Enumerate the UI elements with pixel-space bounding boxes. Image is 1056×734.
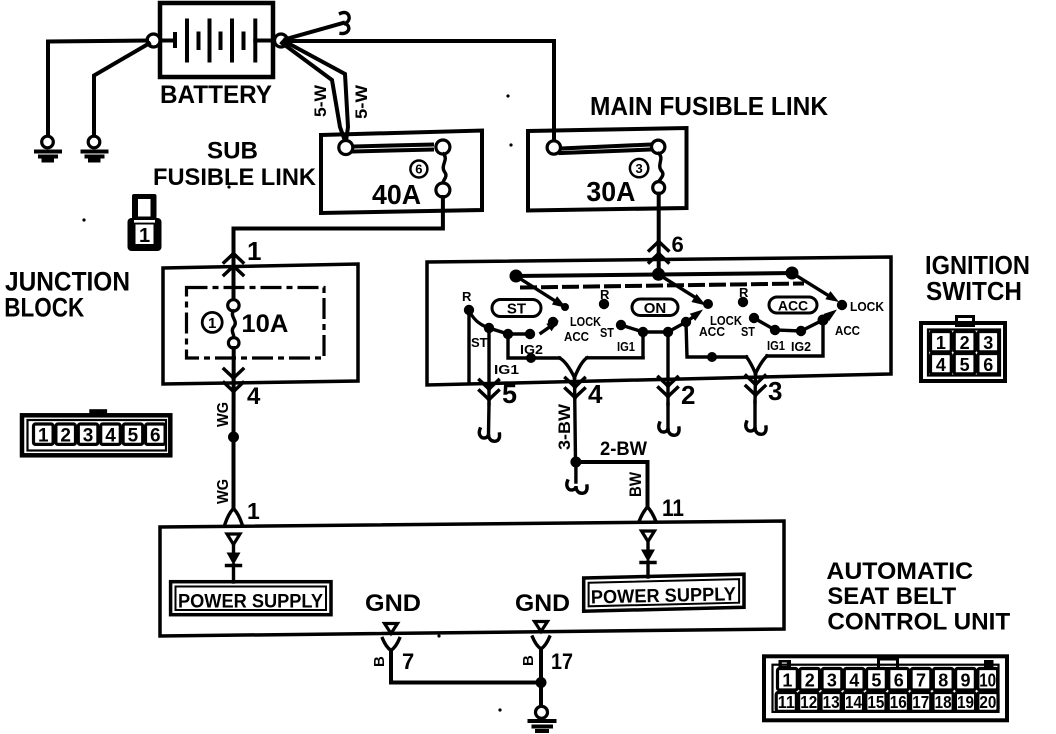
svg-text:1: 1 bbox=[208, 315, 216, 332]
node: bus dot section ON bbox=[652, 268, 665, 281]
main link fuse squiggle bbox=[659, 154, 663, 182]
wiper arm section ON bbox=[659, 274, 707, 305]
power supply box left bbox=[171, 582, 331, 615]
GND right exit triangle bbox=[535, 622, 548, 632]
ground G3 bbox=[530, 706, 555, 731]
sub fusible link box bbox=[321, 131, 482, 214]
wire section ST contact R to box edge bbox=[467, 310, 470, 382]
pin 1 entry triangle bbox=[227, 534, 240, 545]
automatic seat belt control unit box bbox=[160, 521, 784, 636]
wire pin 11 to diode bbox=[646, 541, 649, 551]
svg-text:SEAT BELT: SEAT BELT bbox=[827, 583, 956, 610]
wire 5-W (b) battery to sub fusible link bbox=[284, 41, 348, 141]
svg-text:1: 1 bbox=[247, 498, 260, 524]
wire fuse to pin 4 bbox=[232, 348, 236, 437]
svg-text:2: 2 bbox=[960, 333, 970, 353]
svg-text:10A: 10A bbox=[241, 310, 288, 338]
svg-text:5-W: 5-W bbox=[352, 84, 371, 119]
pin 5 chevrons bbox=[485, 386, 494, 394]
svg-text:BW: BW bbox=[626, 471, 645, 497]
svg-text:2: 2 bbox=[681, 380, 695, 410]
pin 3 funnel bbox=[747, 356, 768, 374]
svg-text:SWITCH: SWITCH bbox=[926, 276, 1022, 306]
svg-text:SUB: SUB bbox=[207, 138, 258, 165]
section ST gap stub with arrowhead bbox=[541, 321, 559, 334]
svg-text:7: 7 bbox=[402, 649, 414, 674]
node: main link right terminal bbox=[652, 140, 665, 153]
power supply box right bbox=[584, 574, 744, 611]
scan specks bbox=[506, 94, 509, 97]
wire section ACC elbow to pin 3 funnel bbox=[767, 320, 823, 356]
section ACC gap stub with arrowhead bbox=[823, 310, 837, 322]
wire section ST elbow to pin 4 funnel bbox=[508, 334, 560, 358]
pin 11 crow-foot (control unit) bbox=[639, 507, 656, 522]
section ACC contacts arc bbox=[754, 318, 823, 331]
svg-text:POWER SUPPLY: POWER SUPPLY bbox=[591, 584, 737, 608]
hook pin 3 wire end bbox=[746, 422, 766, 434]
svg-text:IG1: IG1 bbox=[494, 362, 519, 377]
wire pin 5 to hook bbox=[487, 404, 491, 434]
node: sub link left terminal bbox=[339, 141, 353, 155]
svg-text:1: 1 bbox=[38, 426, 49, 447]
wire pin 1 to diode bbox=[232, 544, 235, 554]
wire battery positive stub to other circuit bbox=[286, 23, 343, 39]
svg-text:IG1: IG1 bbox=[767, 338, 785, 353]
section ST contacts arc bbox=[469, 310, 530, 334]
pin 4 chevrons bbox=[571, 384, 580, 392]
wire diode to power supply box right bbox=[646, 562, 649, 577]
junction dot on WG wire bbox=[228, 432, 239, 443]
svg-text:12: 12 bbox=[800, 692, 817, 712]
hook: wire end to other circuit bbox=[336, 11, 353, 34]
svg-text:3: 3 bbox=[983, 333, 993, 353]
wire battery negative to ground 2 bbox=[94, 44, 149, 137]
svg-text:GND: GND bbox=[515, 590, 570, 617]
svg-text:3: 3 bbox=[83, 426, 94, 447]
svg-text:CONTROL UNIT: CONTROL UNIT bbox=[827, 608, 1010, 635]
svg-text:11: 11 bbox=[662, 495, 684, 522]
wire section ON elbow right toward pin 3 funnel bbox=[686, 322, 747, 357]
wiper arm section ST bbox=[516, 276, 567, 308]
svg-text:B: B bbox=[371, 656, 388, 667]
node: main link lower terminal bbox=[653, 182, 665, 194]
wire pin 3 from funnel bbox=[753, 374, 757, 403]
svg-text:6: 6 bbox=[983, 355, 993, 375]
node: junction dot pin4 wire bbox=[570, 457, 581, 468]
battery B1 box bbox=[160, 3, 273, 77]
svg-text:10: 10 bbox=[979, 671, 996, 691]
wire pin 4 from funnel bbox=[575, 378, 576, 463]
circled 3 bbox=[630, 159, 648, 177]
node dot on wire to pin 3 bbox=[707, 352, 717, 362]
sub fusible link element (double line) bbox=[354, 145, 432, 152]
dashed wiper travel line bbox=[522, 284, 802, 288]
wire pin 7 to ground junction bbox=[391, 651, 541, 683]
wire to control unit pin 1 bbox=[232, 437, 236, 509]
svg-text:18: 18 bbox=[935, 692, 952, 712]
sub link fuse squiggle bbox=[443, 154, 446, 183]
svg-text:40A: 40A bbox=[372, 179, 421, 210]
svg-text:5: 5 bbox=[871, 671, 881, 691]
svg-text:6: 6 bbox=[150, 426, 161, 447]
pin 4 chevron arrows (junction block) bbox=[229, 375, 238, 383]
wire main link to ignition switch pin 6 bbox=[657, 194, 661, 274]
ignition switch box bbox=[427, 257, 891, 385]
wire battery negative to ground 1 bbox=[48, 41, 147, 137]
svg-text:LOCK: LOCK bbox=[850, 299, 885, 314]
circled 6 bbox=[410, 161, 427, 178]
node: main link left terminal bbox=[547, 141, 560, 154]
main fusible link element (double line) bbox=[561, 145, 652, 154]
svg-text:R: R bbox=[600, 287, 610, 302]
node: bus dot section ACC bbox=[786, 267, 799, 280]
ground G1 bbox=[36, 136, 60, 160]
section ON contacts arc bbox=[621, 322, 686, 332]
ground G2 bbox=[83, 136, 107, 160]
svg-text:4: 4 bbox=[936, 355, 946, 375]
svg-text:16: 16 bbox=[890, 692, 907, 712]
wire section ST contact to pin 5 bbox=[487, 328, 490, 404]
fuse F1 10A bbox=[228, 300, 239, 349]
svg-text:4: 4 bbox=[588, 379, 603, 409]
wiper arm section ACC bbox=[792, 273, 839, 302]
svg-text:1: 1 bbox=[936, 333, 946, 353]
pin 3 chevrons bbox=[751, 381, 760, 389]
node: sub link right terminal bbox=[436, 140, 450, 154]
node: battery positive terminal bbox=[275, 34, 288, 47]
svg-text:3: 3 bbox=[635, 161, 642, 176]
svg-text:WG: WG bbox=[215, 402, 232, 427]
svg-text:2-BW: 2-BW bbox=[600, 439, 647, 460]
svg-text:ACC: ACC bbox=[699, 324, 726, 339]
svg-text:4: 4 bbox=[849, 671, 859, 691]
svg-text:GND: GND bbox=[365, 590, 421, 617]
wire battery positive to main fusible link bbox=[287, 41, 554, 141]
svg-text:ACC: ACC bbox=[564, 329, 590, 344]
svg-text:IG1: IG1 bbox=[617, 339, 635, 354]
node: bus dot section ST bbox=[510, 270, 523, 283]
svg-text:6: 6 bbox=[415, 162, 422, 177]
svg-text:5-W: 5-W bbox=[311, 84, 330, 117]
wire section ON contact to pin 2 bbox=[666, 332, 669, 404]
svg-text:ST: ST bbox=[600, 325, 614, 340]
section ACC contact dots bbox=[738, 297, 847, 336]
svg-text:LOCK: LOCK bbox=[570, 314, 602, 329]
section ON labels bbox=[600, 287, 743, 354]
label AUTOMATIC SEAT BELT CONTROL UNIT bbox=[826, 558, 1010, 636]
oval position label ST bbox=[492, 300, 541, 318]
svg-text:3: 3 bbox=[768, 376, 782, 406]
svg-text:1: 1 bbox=[247, 236, 261, 266]
oval position label ON bbox=[632, 299, 678, 317]
svg-text:POWER SUPPLY: POWER SUPPLY bbox=[178, 592, 323, 613]
svg-text:2: 2 bbox=[805, 671, 815, 691]
connector icon: junction block 6-pin bbox=[22, 409, 170, 455]
svg-text:14: 14 bbox=[845, 692, 862, 712]
svg-text:BATTERY: BATTERY bbox=[160, 81, 272, 109]
hook pin 5 wire end bbox=[479, 429, 499, 441]
svg-text:19: 19 bbox=[957, 692, 974, 712]
section ACC labels bbox=[739, 285, 885, 354]
oval position label ACC bbox=[769, 297, 817, 314]
svg-text:3: 3 bbox=[827, 671, 837, 691]
svg-text:5: 5 bbox=[128, 426, 139, 447]
svg-text:ST: ST bbox=[507, 301, 526, 318]
pin 6 chevron arrows bbox=[654, 238, 663, 246]
node: battery negative terminal bbox=[147, 34, 160, 47]
svg-text:5: 5 bbox=[502, 379, 517, 409]
wire pin 17 to ground bbox=[539, 649, 543, 706]
hook pin 2 wire end bbox=[659, 423, 679, 435]
section ON contact dots bbox=[599, 299, 713, 337]
pin 4 funnel bbox=[560, 358, 644, 378]
svg-text:1: 1 bbox=[782, 671, 792, 691]
svg-text:15: 15 bbox=[867, 692, 884, 712]
diode D1 bbox=[227, 553, 241, 566]
svg-text:3-BW: 3-BW bbox=[555, 403, 574, 450]
svg-text:WG: WG bbox=[215, 479, 232, 504]
wire into fuse bbox=[232, 250, 236, 300]
svg-text:1: 1 bbox=[139, 225, 150, 247]
node dot on elbow wire bbox=[526, 353, 536, 363]
node: sub link lower terminal bbox=[436, 183, 450, 197]
wire sub link to junction block bbox=[234, 197, 443, 250]
svg-text:6: 6 bbox=[894, 671, 904, 691]
svg-text:11: 11 bbox=[778, 692, 795, 712]
svg-text:BLOCK: BLOCK bbox=[4, 292, 84, 322]
connector icon: black plug (sub fusible link) bbox=[128, 194, 162, 251]
pin 11 entry triangle bbox=[642, 531, 655, 542]
svg-text:4: 4 bbox=[105, 426, 116, 447]
wire pin 2 to hook bbox=[666, 404, 669, 428]
node: ground junction dot bbox=[536, 677, 547, 688]
GND left exit triangle bbox=[385, 624, 398, 634]
svg-text:4: 4 bbox=[247, 383, 261, 410]
svg-text:17: 17 bbox=[912, 692, 929, 712]
wire pin 3 to hook bbox=[753, 402, 756, 427]
svg-text:7: 7 bbox=[916, 671, 926, 691]
pin 1 chevron arrows (junction block) bbox=[229, 250, 238, 258]
junction block inner dash-dot box bbox=[187, 288, 325, 359]
svg-text:9: 9 bbox=[960, 671, 970, 691]
svg-text:13: 13 bbox=[823, 692, 840, 712]
svg-text:30A: 30A bbox=[586, 176, 635, 207]
circled 1 bbox=[202, 312, 222, 332]
section ST contact dots bbox=[464, 303, 569, 339]
svg-text:AUTOMATIC: AUTOMATIC bbox=[826, 558, 973, 585]
section ST labels bbox=[462, 289, 602, 377]
svg-text:R: R bbox=[462, 289, 472, 304]
bus wire from pin 6 across wipers bbox=[516, 273, 792, 276]
connector icon: control unit 20-pin bbox=[764, 656, 1007, 720]
svg-text:ACC: ACC bbox=[835, 323, 861, 338]
svg-text:2: 2 bbox=[60, 426, 71, 447]
wire section ON elbow left to pin 4 funnel bbox=[641, 332, 644, 358]
main fusible link box bbox=[528, 128, 687, 211]
diode D2 bbox=[641, 550, 655, 563]
svg-text:R: R bbox=[739, 285, 749, 300]
svg-text:6: 6 bbox=[672, 232, 684, 257]
svg-text:20: 20 bbox=[979, 692, 996, 712]
wire 5-W (a) battery to sub fusible link bbox=[282, 43, 345, 141]
svg-text:ST: ST bbox=[741, 324, 755, 339]
svg-text:5: 5 bbox=[960, 355, 970, 375]
svg-text:MAIN FUSIBLE LINK: MAIN FUSIBLE LINK bbox=[590, 91, 828, 121]
wire 2-BW to control unit pin 11 bbox=[576, 462, 648, 507]
section ON gap stub with arrowhead bbox=[686, 310, 703, 323]
svg-text:ST: ST bbox=[471, 335, 488, 350]
svg-text:8: 8 bbox=[938, 671, 948, 691]
battery B1 plates bbox=[161, 21, 274, 61]
hook below junction dot bbox=[574, 462, 577, 482]
svg-text:17: 17 bbox=[551, 649, 573, 674]
connector icon: ignition switch 6-pin bbox=[921, 317, 1005, 382]
svg-text:ACC: ACC bbox=[778, 298, 808, 314]
pin 7 crow-foot bbox=[383, 639, 400, 651]
wire diode to power supply box bbox=[232, 565, 235, 582]
svg-text:IG2: IG2 bbox=[791, 339, 811, 354]
svg-text:ON: ON bbox=[644, 300, 667, 317]
pin 17 crow-foot bbox=[533, 637, 550, 649]
pin 2 chevrons bbox=[664, 383, 673, 391]
svg-text:B: B bbox=[520, 655, 537, 666]
junction block box bbox=[163, 264, 358, 384]
svg-text:FUSIBLE LINK: FUSIBLE LINK bbox=[153, 164, 317, 191]
pin 1 crow-foot (control unit) bbox=[225, 509, 242, 525]
